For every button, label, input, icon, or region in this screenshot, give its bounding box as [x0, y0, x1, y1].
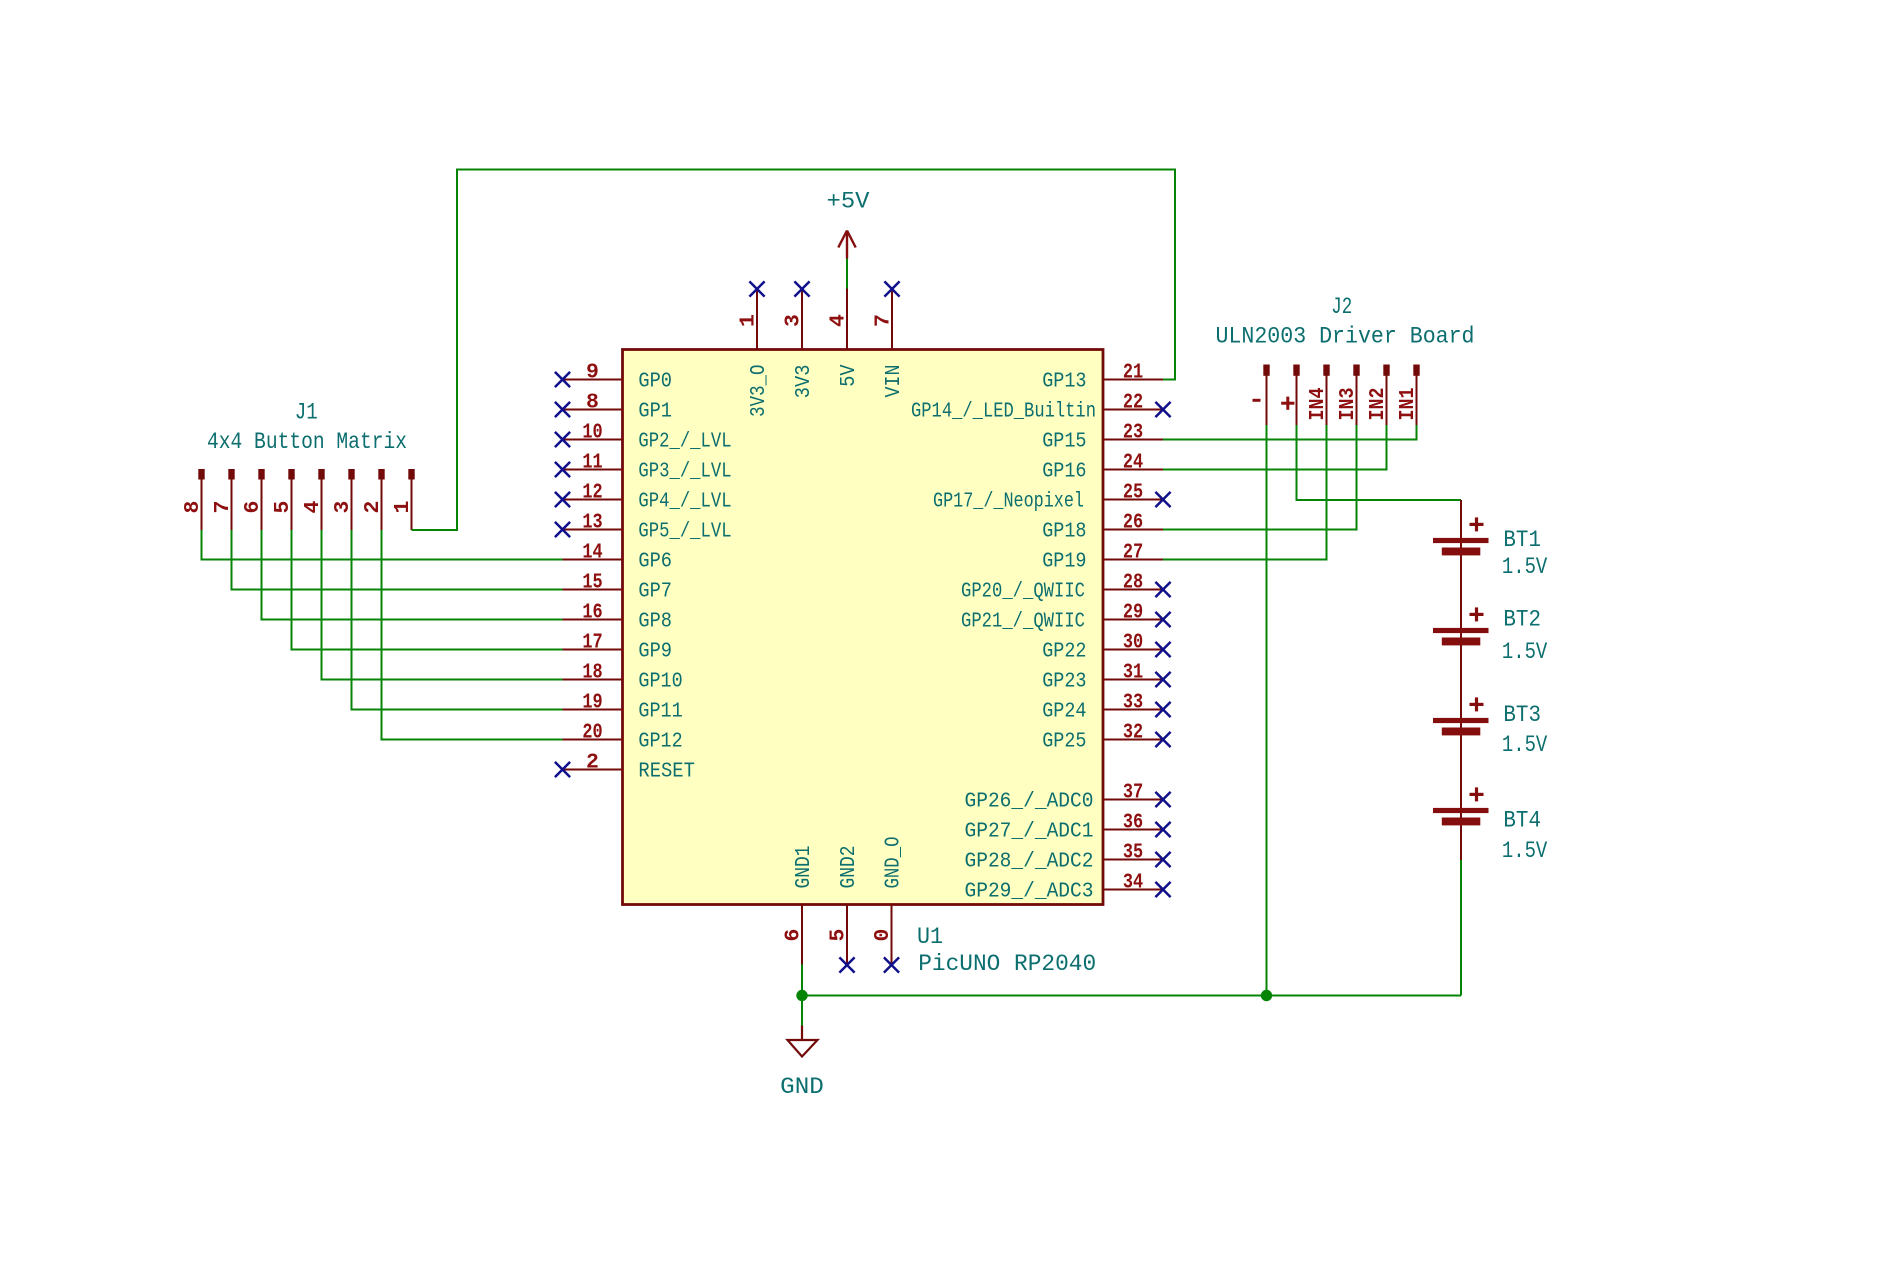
svg-text:7: 7	[211, 501, 235, 514]
svg-text:GP4_/_LVL: GP4_/_LVL	[638, 490, 731, 514]
svg-text:GP24: GP24	[1042, 700, 1086, 724]
svg-text:3V3_O: 3V3_O	[747, 365, 771, 417]
svg-text:6: 6	[241, 501, 265, 514]
svg-text:25: 25	[1123, 481, 1143, 505]
svg-text:30: 30	[1123, 631, 1143, 655]
svg-text:GP3_/_LVL: GP3_/_LVL	[638, 460, 731, 484]
svg-text:4: 4	[301, 500, 325, 513]
svg-text:GND_O: GND_O	[882, 837, 906, 889]
svg-text:GND: GND	[780, 1074, 824, 1100]
svg-text:GP20_/_QWIIC: GP20_/_QWIIC	[961, 580, 1085, 604]
svg-text:IN4: IN4	[1306, 387, 1330, 420]
svg-text:RESET: RESET	[638, 760, 695, 784]
svg-text:IN3: IN3	[1336, 388, 1360, 421]
svg-text:9: 9	[586, 361, 599, 385]
svg-text:5: 5	[827, 929, 851, 942]
svg-text:1.5V: 1.5V	[1502, 838, 1548, 864]
svg-text:GP6: GP6	[638, 550, 672, 574]
svg-text:GP25: GP25	[1042, 730, 1086, 754]
svg-text:1.5V: 1.5V	[1502, 732, 1548, 758]
svg-text:8: 8	[586, 391, 599, 415]
svg-text:GP10: GP10	[638, 670, 682, 694]
svg-text:GND2: GND2	[837, 846, 861, 889]
svg-text:GP13: GP13	[1042, 370, 1086, 394]
svg-text:1: 1	[391, 501, 415, 514]
svg-text:19: 19	[582, 691, 602, 715]
svg-text:7: 7	[872, 314, 896, 327]
svg-text:13: 13	[582, 511, 602, 535]
svg-text:6: 6	[782, 929, 806, 942]
svg-text:5V: 5V	[837, 364, 861, 386]
svg-text:1: 1	[737, 314, 761, 327]
svg-text:IN1: IN1	[1396, 388, 1420, 421]
svg-text:GP29_/_ADC3: GP29_/_ADC3	[965, 880, 1094, 904]
svg-text:BT4: BT4	[1503, 808, 1541, 834]
svg-text:27: 27	[1123, 541, 1143, 565]
svg-text:11: 11	[582, 451, 602, 475]
svg-text:GND1: GND1	[792, 846, 816, 889]
svg-text:GP1: GP1	[638, 400, 672, 424]
svg-text:4x4 Button Matrix: 4x4 Button Matrix	[207, 429, 407, 455]
svg-text:J2: J2	[1331, 294, 1352, 320]
svg-text:3V3: 3V3	[792, 365, 816, 399]
svg-text:26: 26	[1123, 511, 1143, 535]
svg-text:VIN: VIN	[882, 365, 906, 398]
svg-text:GP17_/_Neopixel: GP17_/_Neopixel	[933, 490, 1084, 514]
svg-text:3: 3	[331, 501, 355, 514]
svg-text:GP9: GP9	[638, 640, 672, 664]
svg-text:U1: U1	[917, 924, 943, 950]
svg-text:+5V: +5V	[827, 189, 870, 215]
svg-text:35: 35	[1123, 841, 1143, 865]
svg-text:GP2_/_LVL: GP2_/_LVL	[638, 430, 731, 454]
svg-text:GP12: GP12	[638, 730, 682, 754]
svg-text:29: 29	[1123, 601, 1143, 625]
svg-text:15: 15	[582, 571, 602, 595]
svg-text:GP28_/_ADC2: GP28_/_ADC2	[965, 850, 1094, 874]
svg-text:34: 34	[1123, 871, 1143, 895]
svg-text:GP23: GP23	[1042, 670, 1086, 694]
svg-text:31: 31	[1123, 661, 1143, 685]
svg-text:18: 18	[582, 661, 602, 685]
svg-text:21: 21	[1123, 361, 1143, 385]
svg-text:GP0: GP0	[638, 370, 672, 394]
svg-text:17: 17	[582, 631, 602, 655]
svg-text:33: 33	[1123, 691, 1143, 715]
svg-text:GP15: GP15	[1042, 430, 1086, 454]
svg-text:BT3: BT3	[1503, 702, 1541, 728]
svg-text:12: 12	[582, 481, 602, 505]
svg-text:GP27_/_ADC1: GP27_/_ADC1	[965, 820, 1094, 844]
svg-text:32: 32	[1123, 721, 1143, 745]
svg-text:3: 3	[782, 314, 806, 327]
svg-text:0: 0	[871, 929, 895, 942]
svg-text:24: 24	[1123, 451, 1143, 475]
svg-text:16: 16	[582, 601, 602, 625]
svg-text:2: 2	[586, 751, 599, 775]
svg-text:GP21_/_QWIIC: GP21_/_QWIIC	[961, 610, 1085, 634]
svg-text:1.5V: 1.5V	[1502, 554, 1548, 580]
svg-text:10: 10	[582, 421, 602, 445]
svg-text:GP26_/_ADC0: GP26_/_ADC0	[965, 790, 1094, 814]
svg-text:20: 20	[582, 721, 602, 745]
svg-text:GP8: GP8	[638, 610, 672, 634]
svg-text:GP16: GP16	[1042, 460, 1086, 484]
svg-text:GP14_/_LED_Builtin: GP14_/_LED_Builtin	[911, 400, 1096, 424]
svg-text:GP22: GP22	[1042, 640, 1086, 664]
svg-text:1.5V: 1.5V	[1502, 639, 1548, 665]
svg-text:GP7: GP7	[638, 580, 672, 604]
svg-text:14: 14	[582, 541, 602, 565]
svg-text:28: 28	[1123, 571, 1143, 595]
svg-text:2: 2	[361, 501, 385, 514]
svg-text:8: 8	[181, 501, 205, 514]
svg-text:36: 36	[1123, 811, 1143, 835]
svg-text:5: 5	[271, 501, 295, 514]
svg-text:BT1: BT1	[1503, 527, 1541, 553]
svg-text:ULN2003 Driver Board: ULN2003 Driver Board	[1216, 323, 1475, 349]
svg-text:22: 22	[1123, 391, 1143, 415]
svg-text:37: 37	[1123, 781, 1143, 805]
svg-text:GP5_/_LVL: GP5_/_LVL	[638, 520, 731, 544]
svg-text:GP19: GP19	[1042, 550, 1086, 574]
svg-text:GP18: GP18	[1042, 520, 1086, 544]
svg-text:4: 4	[827, 314, 851, 327]
svg-text:BT2: BT2	[1503, 607, 1541, 633]
svg-text:J1: J1	[295, 400, 318, 426]
svg-text:GP11: GP11	[638, 700, 682, 724]
svg-text:23: 23	[1123, 421, 1143, 445]
svg-text:IN2: IN2	[1366, 388, 1390, 421]
svg-text:PicUNO RP2040: PicUNO RP2040	[918, 951, 1096, 977]
